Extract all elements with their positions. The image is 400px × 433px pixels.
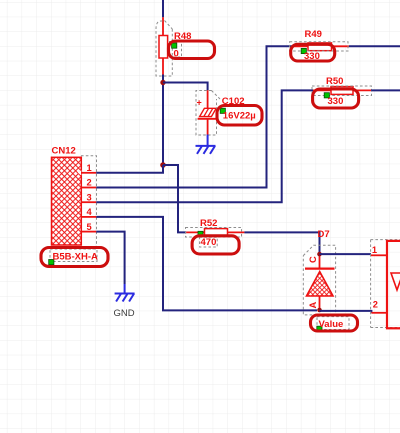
wire R49 right	[349, 45, 400, 47]
svg-text:R49: R49	[305, 29, 322, 40]
highlight oval R48 value	[169, 41, 215, 59]
highlight oval Value	[311, 315, 358, 331]
svg-text:GND: GND	[114, 308, 135, 319]
svg-text:3: 3	[87, 192, 92, 202]
wire node2 branch right and down to R52	[163, 165, 186, 232]
svg-text:2: 2	[373, 299, 378, 309]
svg-text:330: 330	[328, 96, 344, 107]
value 0 with green handle	[170, 42, 182, 60]
capacitor C102	[196, 90, 220, 135]
svg-text:R52: R52	[200, 218, 217, 229]
highlight oval R49 value	[291, 44, 335, 61]
resistor R52	[186, 228, 245, 238]
wire D7 cathode to U pin1	[320, 253, 372, 255]
wire pin5 to ground	[96, 232, 124, 284]
junction dot node1	[160, 80, 165, 85]
svg-text:D7: D7	[318, 229, 330, 240]
resistor R48	[156, 17, 172, 76]
value 330 green handle	[324, 93, 343, 107]
wire R52 to D7	[244, 232, 319, 254]
value B5B-XH-A with green handle	[49, 249, 98, 265]
wire pin3 to R50	[96, 90, 313, 202]
value 470 green handle	[198, 231, 217, 248]
wire R50 right	[371, 89, 400, 91]
svg-text:+: +	[197, 98, 202, 108]
junction dot D7 cathode	[317, 252, 322, 257]
wire R48 to junctions	[162, 75, 164, 166]
highlight oval C102 value	[217, 106, 262, 126]
junction dot D7 anode	[317, 308, 322, 313]
resistor R50	[312, 86, 372, 96]
wire net to R48 top	[162, 0, 164, 17]
pin 5	[81, 231, 96, 233]
svg-text:470: 470	[201, 237, 217, 248]
diode D7	[303, 245, 335, 315]
pin 2	[81, 187, 96, 189]
svg-text:2: 2	[87, 178, 92, 188]
wire pin4 to D7 anode	[96, 217, 317, 311]
U pin 2	[371, 312, 387, 314]
resistor R49	[290, 42, 349, 51]
wire pin2 to R49	[96, 46, 292, 187]
wire D7 anode to U pin2	[320, 311, 372, 313]
pin 4	[81, 216, 96, 218]
value Value with green handle	[317, 317, 349, 332]
junction dot node2	[160, 162, 166, 168]
svg-text:A: A	[308, 302, 318, 309]
svg-text:R50: R50	[326, 76, 343, 87]
pin 3	[81, 201, 96, 203]
connector CN12	[52, 156, 97, 249]
wire node1 to C102	[163, 83, 208, 91]
value 330 green handle	[301, 48, 320, 61]
optocoupler U (partial at right edge)	[371, 240, 400, 329]
U pin 1	[371, 254, 387, 256]
value 16V22u green handle	[220, 108, 256, 121]
pin 1	[81, 172, 96, 174]
wire pin1 to node2	[96, 165, 163, 173]
svg-text:Value: Value	[319, 319, 344, 330]
ground GND	[115, 284, 135, 302]
svg-text:B5B-XH-A: B5B-XH-A	[53, 251, 99, 262]
highlight oval B5B-XH-A	[41, 248, 108, 267]
svg-text:C: C	[308, 256, 318, 263]
svg-text:4: 4	[87, 207, 93, 217]
svg-text:1: 1	[372, 245, 377, 255]
highlight oval R50 value	[313, 89, 359, 108]
svg-text:CN12: CN12	[52, 145, 76, 156]
svg-text:16V22µ: 16V22µ	[223, 111, 256, 122]
svg-text:5: 5	[87, 222, 92, 232]
ground under C102	[196, 135, 216, 154]
svg-text:1: 1	[87, 163, 92, 173]
highlight oval R52 value	[192, 236, 239, 254]
